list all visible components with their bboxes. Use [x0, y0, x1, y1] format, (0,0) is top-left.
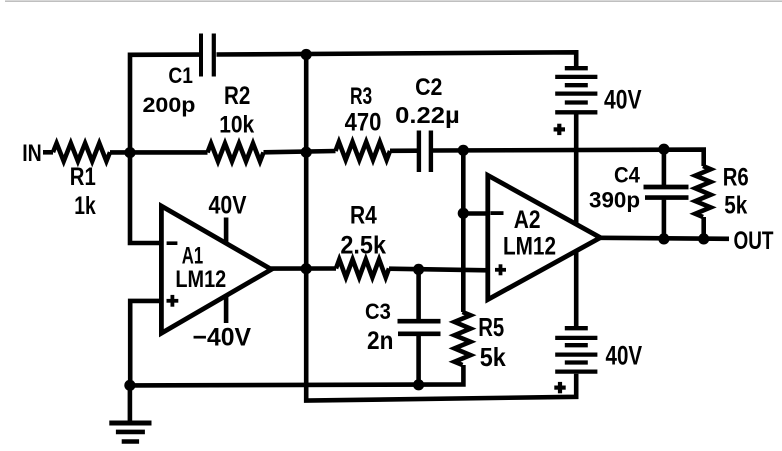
svg-text:40V: 40V [606, 340, 643, 370]
svg-text:5k: 5k [480, 342, 506, 372]
svg-text:R5: R5 [478, 312, 504, 342]
svg-text:OUT: OUT [734, 227, 774, 255]
svg-text:C3: C3 [365, 299, 391, 324]
svg-text:5k: 5k [724, 192, 747, 220]
svg-text:2.5k: 2.5k [340, 231, 386, 259]
svg-text:C4: C4 [614, 163, 641, 188]
svg-text:R3: R3 [350, 83, 372, 110]
svg-text:R2: R2 [224, 82, 250, 110]
svg-text:2n: 2n [367, 327, 393, 355]
svg-text:1k: 1k [74, 192, 96, 220]
svg-text:R4: R4 [350, 201, 377, 229]
svg-text:LM12: LM12 [503, 233, 556, 261]
svg-text:LM12: LM12 [175, 266, 226, 293]
svg-text:40V: 40V [209, 192, 247, 220]
svg-text:0.22µ: 0.22µ [395, 102, 460, 128]
svg-text:A2: A2 [514, 206, 541, 234]
svg-text:C2: C2 [415, 74, 442, 101]
svg-text:40V: 40V [604, 84, 642, 114]
svg-text:10k: 10k [219, 112, 254, 139]
svg-text:390p: 390p [589, 188, 640, 213]
svg-text:R1: R1 [70, 163, 96, 191]
svg-text:200p: 200p [143, 93, 196, 117]
svg-text:IN: IN [22, 140, 42, 167]
svg-text:R6: R6 [723, 163, 749, 191]
svg-text:−40V: −40V [193, 323, 252, 351]
svg-text:470: 470 [345, 108, 382, 136]
svg-text:C1: C1 [168, 63, 193, 88]
